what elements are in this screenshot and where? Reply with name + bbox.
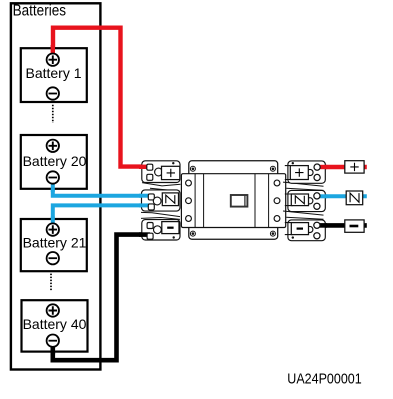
- screw bottom-right: [270, 231, 275, 236]
- wire black negative: [53, 235, 149, 361]
- battery 21 box: [21, 217, 87, 272]
- wire red stub into left plus terminal: [139, 165, 149, 169]
- svg-text:Battery 21: Battery 21: [23, 234, 87, 250]
- svg-text:UA24P00001: UA24P00001: [287, 371, 361, 388]
- screw bottom-left: [190, 231, 195, 236]
- dotted link 1: [52, 105, 54, 123]
- svg-text:Battery 20: Battery 20: [23, 153, 87, 169]
- wire black stub into left minus terminal: [139, 232, 150, 237]
- wire blue N upper: [53, 180, 149, 196]
- wire black to output: [322, 223, 367, 228]
- svg-text:Battery 40: Battery 40: [23, 316, 87, 332]
- output label N: [346, 191, 363, 205]
- left connector N: [139, 190, 180, 211]
- wire red stub from right plus terminal: [315, 165, 327, 169]
- wire red to output: [322, 165, 367, 169]
- wire blue stub into left N terminal lower: [139, 203, 150, 207]
- breaker terminal holes right: [274, 180, 280, 221]
- left tab between N and minus: [141, 212, 180, 219]
- screw top-left: [190, 166, 195, 171]
- screw top-right: [270, 166, 275, 171]
- breaker inner line 2: [203, 174, 205, 228]
- wire red stub at battery 1 positive: [51, 45, 55, 55]
- wire red positive: [53, 28, 149, 167]
- dotted link 2: [50, 274, 52, 292]
- svg-text:Battery 1: Battery 1: [25, 65, 81, 81]
- right connector plus: [285, 161, 327, 183]
- svg-text:Batteries: Batteries: [13, 2, 67, 19]
- left connector minus: [139, 220, 180, 240]
- breaker terminal holes left: [186, 180, 192, 221]
- wire blue stub into left N terminal upper: [139, 194, 150, 198]
- left connector plus: [139, 161, 180, 183]
- batteries outer box: [11, 3, 101, 369]
- battery 40 box: [22, 300, 88, 354]
- right tab between plus and N: [283, 182, 324, 190]
- wire blue to output: [322, 194, 367, 198]
- wire blue stub at battery 21 positive: [51, 217, 55, 225]
- right tab between N and minus: [283, 211, 324, 219]
- wire black stub from right minus terminal: [315, 223, 327, 228]
- left tab between plus and N: [142, 183, 181, 192]
- wire blue N lower: [53, 205, 149, 225]
- breaker inner line 3: [254, 174, 256, 228]
- right connector minus: [285, 220, 327, 241]
- wire black stub at battery 40 negative: [50, 346, 55, 355]
- battery 20 box: [21, 135, 87, 192]
- breaker inner line 1: [194, 174, 196, 228]
- output label plus: [345, 161, 364, 173]
- breaker switch: [231, 195, 248, 207]
- breaker back plate: [189, 161, 278, 239]
- battery 1 box: [21, 45, 87, 102]
- breaker main body: [181, 174, 285, 228]
- wire blue stub from right N terminal: [315, 194, 327, 198]
- wire blue stub at battery 20 negative: [51, 181, 55, 192]
- right connector N: [285, 190, 327, 211]
- breaker inner line 4: [268, 174, 270, 228]
- output label minus: [345, 220, 364, 232]
